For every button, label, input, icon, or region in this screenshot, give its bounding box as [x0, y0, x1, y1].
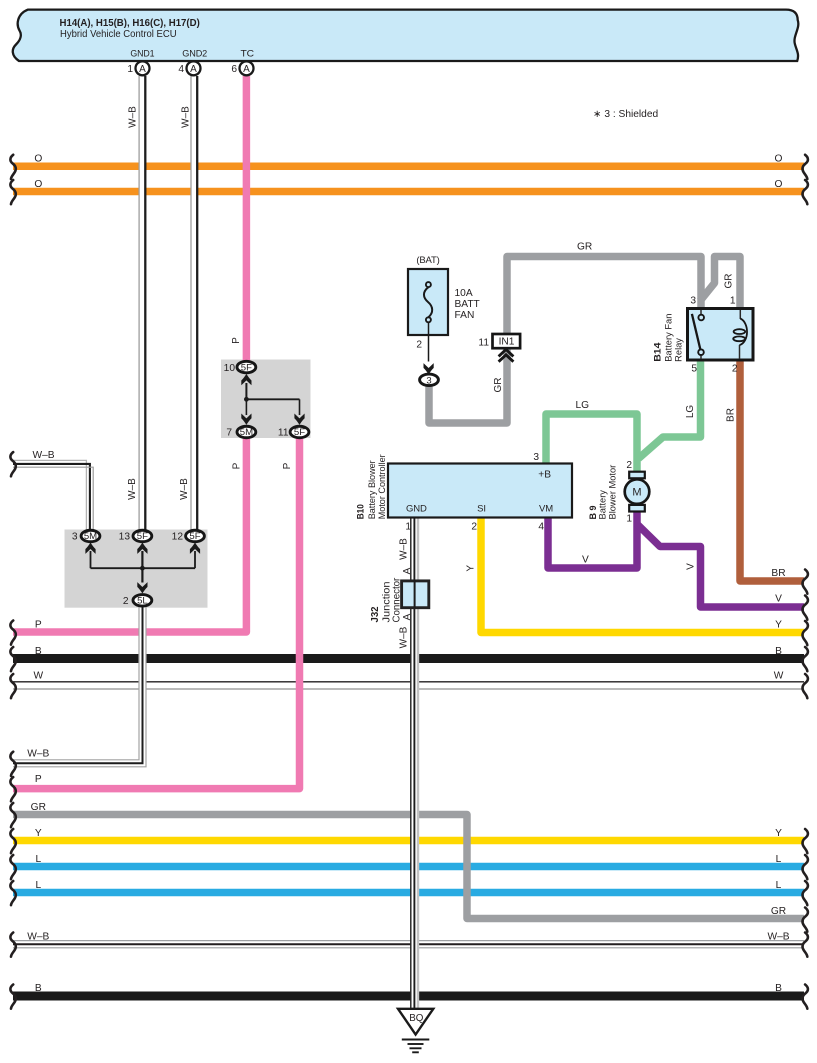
svg-text:W–B: W–B	[399, 626, 410, 648]
svg-text:2: 2	[416, 340, 422, 351]
svg-text:GR: GR	[724, 274, 735, 289]
svg-text:1: 1	[127, 64, 133, 75]
arrow into 5F13	[137, 543, 147, 554]
wire P TC vertical	[243, 76, 251, 361]
svg-text:Y: Y	[775, 828, 782, 839]
svg-text:P: P	[232, 462, 243, 469]
wire B mid bus	[13, 654, 804, 663]
svg-text:Y: Y	[35, 828, 42, 839]
ground BQ	[398, 1009, 433, 1053]
svg-text:2: 2	[732, 364, 738, 375]
svg-text:3: 3	[72, 532, 78, 543]
svg-text:5L: 5L	[137, 596, 148, 607]
wire W-B GND2 vertical	[191, 76, 197, 530]
arrow into 5F12	[190, 543, 200, 554]
junction block shield area 2	[65, 530, 208, 608]
svg-text:BQ: BQ	[409, 1013, 424, 1024]
svg-text:SI: SI	[477, 504, 486, 515]
svg-text:BR: BR	[726, 408, 737, 422]
svg-text:B: B	[35, 983, 42, 994]
wire break mark right y=658.5	[803, 647, 808, 671]
svg-text:LG: LG	[576, 400, 590, 411]
motor B9 Battery Blower Motor	[588, 460, 649, 525]
svg-text:P: P	[231, 337, 242, 344]
svg-text:H14(A), H15(B), H16(C), H17(D): H14(A), H15(B), H16(C), H17(D)	[60, 18, 200, 29]
wire B bottom bus	[13, 992, 804, 1001]
wire 5F13 to bus	[141, 551, 143, 568]
wire P from 5F11 to left edge	[13, 437, 300, 789]
wire break mark right y=996	[803, 985, 808, 1009]
wire W-B bottom bus	[13, 941, 804, 948]
junction dot jb2	[140, 566, 145, 571]
wire 5M3 to bus	[90, 551, 92, 568]
svg-text:V: V	[775, 594, 782, 605]
wire break mark right y=892.5	[803, 881, 808, 905]
svg-text:4: 4	[178, 64, 184, 75]
svg-text:B: B	[775, 983, 782, 994]
svg-text:GND2: GND2	[182, 49, 207, 60]
wire break mark right y=632.5	[803, 621, 808, 645]
wire bus to 5L2	[141, 568, 143, 582]
fuse 10A BATT FAN	[408, 255, 480, 386]
connector oval 5F pin 11	[290, 426, 309, 438]
svg-text:L: L	[35, 854, 41, 865]
connector oval 5F pin 12	[186, 530, 205, 542]
arrow into 5F10	[241, 374, 251, 385]
wire break mark right y=191.5	[803, 180, 808, 204]
svg-text:Hybrid Vehicle Control ECU: Hybrid Vehicle Control ECU	[60, 29, 177, 40]
svg-text:W–B: W–B	[399, 538, 410, 560]
svg-text:5F: 5F	[137, 531, 148, 542]
svg-text:5M: 5M	[84, 531, 97, 542]
wire GR hop to relay pin1	[700, 257, 740, 310]
svg-text:A: A	[402, 567, 413, 574]
relay B14 Battery Fan Relay	[653, 296, 753, 375]
svg-text:2: 2	[471, 522, 477, 533]
svg-text:12: 12	[172, 532, 184, 543]
wire LG +B to motor	[546, 414, 637, 472]
svg-text:W–B: W–B	[27, 932, 49, 943]
svg-text:L: L	[35, 880, 41, 891]
svg-text:LG: LG	[685, 405, 696, 419]
svg-text:P: P	[35, 620, 42, 631]
wire break mark right y=581	[803, 570, 808, 594]
svg-text:Battery: Battery	[597, 490, 607, 520]
wire GR fuse to relay pin3 via IN1	[429, 257, 701, 424]
svg-text:Battery Blower: Battery Blower	[367, 460, 377, 519]
svg-text:W–B: W–B	[767, 932, 789, 943]
svg-text:5: 5	[691, 364, 697, 375]
wire break mark left y=944	[10, 933, 15, 957]
svg-text:∗ 3 : Shielded: ∗ 3 : Shielded	[593, 109, 659, 120]
svg-text:6: 6	[231, 64, 237, 75]
wire branch down to 5F11	[299, 399, 301, 415]
wire W-B B10 GND through J32 to ground	[411, 517, 418, 1009]
svg-text:1: 1	[730, 296, 736, 307]
svg-text:A: A	[190, 64, 197, 75]
wire break mark right y=840.5	[803, 829, 808, 853]
svg-text:TC: TC	[241, 49, 255, 60]
svg-text:W–B: W–B	[179, 478, 190, 500]
svg-text:(BAT): (BAT)	[416, 255, 439, 266]
wire P from 5M7 to left edge	[13, 436, 246, 632]
wire break mark right y=919	[803, 908, 808, 932]
wire Y SI to right edge	[481, 517, 804, 633]
wire break mark left y=996	[10, 985, 15, 1009]
wire break mark left y=866.5	[10, 855, 15, 879]
svg-text:Battery Fan: Battery Fan	[663, 314, 673, 362]
svg-text:13: 13	[119, 532, 131, 543]
svg-text:V: V	[582, 555, 589, 566]
ECU pin circle A (TC pin 6)	[231, 61, 253, 75]
svg-text:Y: Y	[775, 620, 782, 631]
connector oval 3	[420, 374, 439, 386]
svg-text:W–B: W–B	[32, 450, 54, 461]
arrow into 5L2	[137, 582, 147, 593]
wire break mark right y=685.5	[803, 674, 808, 698]
svg-text:3: 3	[533, 452, 539, 463]
wire break mark left y=763.2	[10, 752, 15, 776]
wire O bus 2	[13, 188, 804, 196]
svg-text:M: M	[632, 487, 641, 499]
svg-text:Motor Controller: Motor Controller	[377, 454, 387, 519]
wire 5F10 to junction	[245, 383, 247, 399]
Hybrid Vehicle Control ECU box H14-H17	[13, 10, 799, 61]
svg-text:2: 2	[123, 596, 129, 607]
wire break mark right y=944	[803, 933, 808, 957]
svg-text:A: A	[139, 64, 146, 75]
svg-text:W–B: W–B	[27, 749, 49, 760]
wire 5F12 to bus	[194, 551, 196, 568]
wire break mark left y=814.5	[10, 803, 15, 827]
svg-text:Blower Motor: Blower Motor	[607, 465, 617, 520]
svg-text:P: P	[282, 462, 293, 469]
svg-text:B: B	[775, 646, 782, 657]
connector oval 5L pin 2	[133, 595, 152, 607]
svg-text:GR: GR	[493, 377, 504, 392]
svg-text:5F: 5F	[241, 362, 252, 373]
svg-text:J32: J32	[370, 606, 381, 622]
junction block shield area 1	[221, 360, 311, 439]
junction connector J32	[370, 577, 429, 622]
svg-text:GR: GR	[577, 242, 592, 253]
arrow into 5M7	[241, 414, 251, 425]
svg-text:GR: GR	[31, 802, 46, 813]
svg-text:Connector: Connector	[392, 577, 403, 622]
svg-text:+B: +B	[538, 470, 551, 481]
wire BR relay pin2 to right edge	[740, 360, 804, 581]
junction dot jb1	[244, 397, 249, 402]
junction block 2 internals	[72, 530, 205, 607]
junction block 1 internals	[224, 361, 309, 438]
svg-text:O: O	[34, 154, 42, 165]
wire break mark left y=658.5	[10, 647, 15, 671]
svg-text:GR: GR	[771, 906, 786, 917]
wire break mark right y=607	[803, 596, 808, 620]
wire L bus 1	[13, 863, 804, 871]
svg-text:BR: BR	[771, 568, 785, 579]
wire break mark right y=866.5	[803, 855, 808, 879]
arrow into 5F11	[294, 414, 304, 425]
svg-text:2: 2	[626, 460, 632, 471]
svg-text:O: O	[34, 179, 42, 190]
svg-text:O: O	[775, 154, 783, 165]
svg-text:11: 11	[278, 428, 289, 439]
svg-text:IN1: IN1	[499, 337, 515, 348]
connector oval 5M pin 7	[237, 426, 256, 438]
wire break mark left y=840.5	[10, 829, 15, 853]
svg-text:Y: Y	[465, 565, 476, 572]
wire break mark left y=892.5	[10, 881, 15, 905]
svg-text:1: 1	[405, 522, 411, 533]
svg-text:5M: 5M	[240, 427, 253, 438]
wire break mark left y=166.3	[10, 155, 15, 179]
svg-text:VM: VM	[539, 504, 553, 515]
wire junction to 5F11 branch	[246, 398, 299, 400]
ECU pin circle A (GND2 pin 4)	[178, 61, 200, 75]
svg-text:W: W	[33, 671, 43, 682]
wire break mark left y=685.5	[10, 674, 15, 698]
wire break mark left y=632	[10, 621, 15, 645]
svg-text:A: A	[402, 613, 413, 620]
svg-text:L: L	[776, 854, 782, 865]
svg-text:P: P	[35, 774, 42, 785]
svg-text:FAN: FAN	[455, 310, 475, 321]
wire break mark right y=166.3	[803, 155, 808, 179]
svg-text:B10: B10	[356, 504, 366, 519]
wire W-B 5L2 down to left edge	[13, 607, 146, 767]
wire bus jb2	[91, 567, 196, 569]
controller B10 Battery Blower Motor Controller	[356, 452, 573, 533]
ECU pin circle A (GND1 pin 1)	[127, 61, 149, 75]
svg-text:A: A	[243, 64, 250, 75]
svg-text:V: V	[686, 563, 697, 570]
svg-text:7: 7	[226, 428, 232, 439]
svg-text:1: 1	[626, 514, 632, 525]
arrow into 5M3	[85, 543, 95, 554]
svg-text:BATT: BATT	[455, 299, 480, 310]
wire break mark left y=463.6	[10, 452, 15, 476]
wire break mark left y=788.6	[10, 777, 15, 801]
svg-text:W–B: W–B	[127, 478, 138, 500]
connector oval 5M pin 3	[81, 530, 100, 542]
svg-text:L: L	[776, 880, 782, 891]
wire V VM to motor pin1	[548, 511, 637, 568]
svg-text:Relay: Relay	[674, 338, 684, 362]
svg-text:5F: 5F	[294, 427, 305, 438]
wire L bus 2	[13, 889, 804, 897]
svg-text:W–B: W–B	[128, 106, 139, 128]
wire O bus 1	[13, 163, 804, 171]
wire W-B left edge to 5M3	[13, 460, 93, 530]
svg-text:O: O	[775, 179, 783, 190]
svg-text:10A: 10A	[455, 288, 473, 299]
connector IN1 pin 11	[478, 334, 520, 362]
svg-text:11: 11	[478, 338, 489, 349]
wire W-B GND1 vertical	[139, 76, 145, 530]
wire break mark left y=191.5	[10, 180, 15, 204]
connector oval 5F pin 13	[133, 530, 152, 542]
svg-text:4: 4	[538, 522, 544, 533]
wire Y bottom bus	[13, 837, 804, 845]
svg-text:GND: GND	[406, 504, 427, 515]
wire W mid bus	[13, 681, 804, 683]
svg-text:W: W	[774, 671, 784, 682]
svg-text:GND1: GND1	[130, 49, 154, 60]
wire LG relay pin5 to motor	[639, 360, 701, 459]
connector oval 5F pin 10	[237, 361, 256, 373]
svg-text:B14: B14	[653, 342, 664, 362]
svg-text:5F: 5F	[189, 531, 200, 542]
wire GR bottom	[13, 815, 804, 919]
svg-text:B: B	[35, 646, 42, 657]
wire V motor branch to right edge	[637, 524, 805, 608]
svg-text:3: 3	[690, 296, 696, 307]
svg-text:W–B: W–B	[181, 106, 192, 128]
wire junction to 5M7	[245, 399, 247, 415]
svg-text:10: 10	[224, 363, 236, 374]
svg-text:3: 3	[426, 375, 431, 386]
